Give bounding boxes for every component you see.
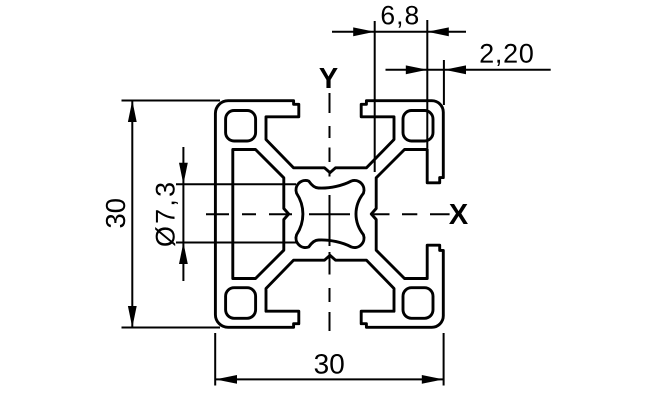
- label 2,20: [481, 44, 533, 66]
- label 6,8: [382, 6, 418, 28]
- dimension 30 left: dimension line: [131, 101, 133, 328]
- arrow d7,3 bottom (outside, pointing up): [179, 243, 188, 265]
- X center line (horizontal dash-dot): [206, 213, 450, 215]
- label diameter 7,3 (rotated): [155, 183, 178, 246]
- arrow 30-bottom left: [216, 375, 238, 384]
- corner hole bottom-left: [226, 288, 256, 319]
- dimension 6,8: extension lines: [374, 21, 376, 172]
- profile outer contour with T-slot cavities (top, right, bottom open slots): [215, 101, 443, 328]
- left closed slot cavity: [233, 150, 289, 279]
- arrow 2,20 right (outside, pointing left): [445, 65, 467, 74]
- arrow 6,8 right (outside, pointing left): [427, 27, 449, 36]
- dimension 2,20: dimension line: [386, 69, 551, 71]
- dimension Ø7,3: extension lines: [176, 183, 296, 185]
- arrow 2,20 left (outside, pointing right): [406, 65, 428, 74]
- arrow 6,8 left (outside, pointing right): [353, 27, 375, 36]
- corner hole bottom-right: [403, 288, 433, 319]
- arrow 30-left bottom: [128, 306, 137, 328]
- axis label Y: [319, 68, 337, 88]
- arrow 30-bottom right: [422, 375, 444, 384]
- dimension 2,20: extension line: [443, 60, 445, 105]
- axis label X: [449, 204, 468, 224]
- dimension 6,8: dimension line: [332, 31, 466, 33]
- center bore (thread forming contour): [296, 180, 364, 247]
- dimension Ø7,3: dimension line: [182, 147, 184, 281]
- label 30 left (rotated): [106, 199, 125, 227]
- arrow 30-left top: [128, 101, 137, 123]
- dimension 30 left: extension lines: [122, 100, 221, 102]
- dimension 30 bottom: extension lines: [214, 333, 216, 386]
- corner hole top-left: [226, 111, 256, 142]
- corner hole top-right: [403, 111, 433, 142]
- text labels (as outlines): [106, 6, 533, 374]
- arrowheads: [128, 27, 466, 383]
- arrow d7,3 top (outside, pointing down): [179, 163, 188, 185]
- Y center line (vertical dash-dot): [329, 93, 331, 331]
- label 30 bottom: [315, 354, 344, 374]
- dimension 30 bottom: dimension line: [215, 378, 443, 380]
